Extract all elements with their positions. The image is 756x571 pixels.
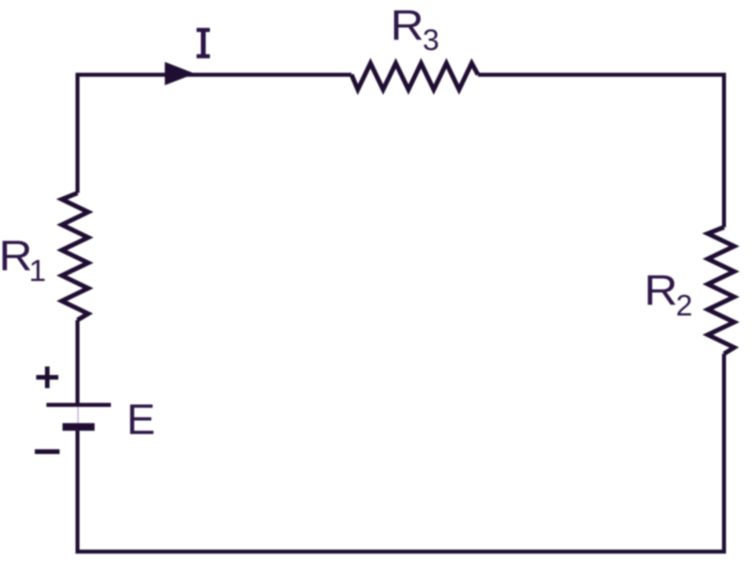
resistor R2 — [708, 227, 734, 354]
label I (current) — [197, 28, 210, 58]
svg-text:R: R — [390, 2, 424, 49]
resistor R3 — [352, 63, 479, 89]
svg-text:3: 3 — [423, 24, 440, 57]
wire top-left corner segment — [78, 75, 352, 193]
current arrow I — [165, 62, 195, 85]
wire R1 to battery — [76, 320, 80, 403]
svg-text:R: R — [0, 233, 33, 280]
svg-text:E: E — [127, 396, 156, 444]
battery E thin inner wire — [77, 405, 79, 427]
battery E positive plate (long) — [46, 403, 111, 407]
minus sign — [35, 449, 60, 454]
svg-text:2: 2 — [676, 290, 693, 323]
svg-text:R: R — [644, 267, 678, 314]
resistor R1 — [62, 193, 88, 320]
wire top-right corner segment — [478, 75, 724, 228]
svg-text:1: 1 — [29, 253, 46, 288]
plus sign — [36, 367, 58, 389]
wire battery to bottom-left corner and bottom — [78, 354, 725, 552]
battery E negative plate (short thick) — [63, 423, 95, 431]
